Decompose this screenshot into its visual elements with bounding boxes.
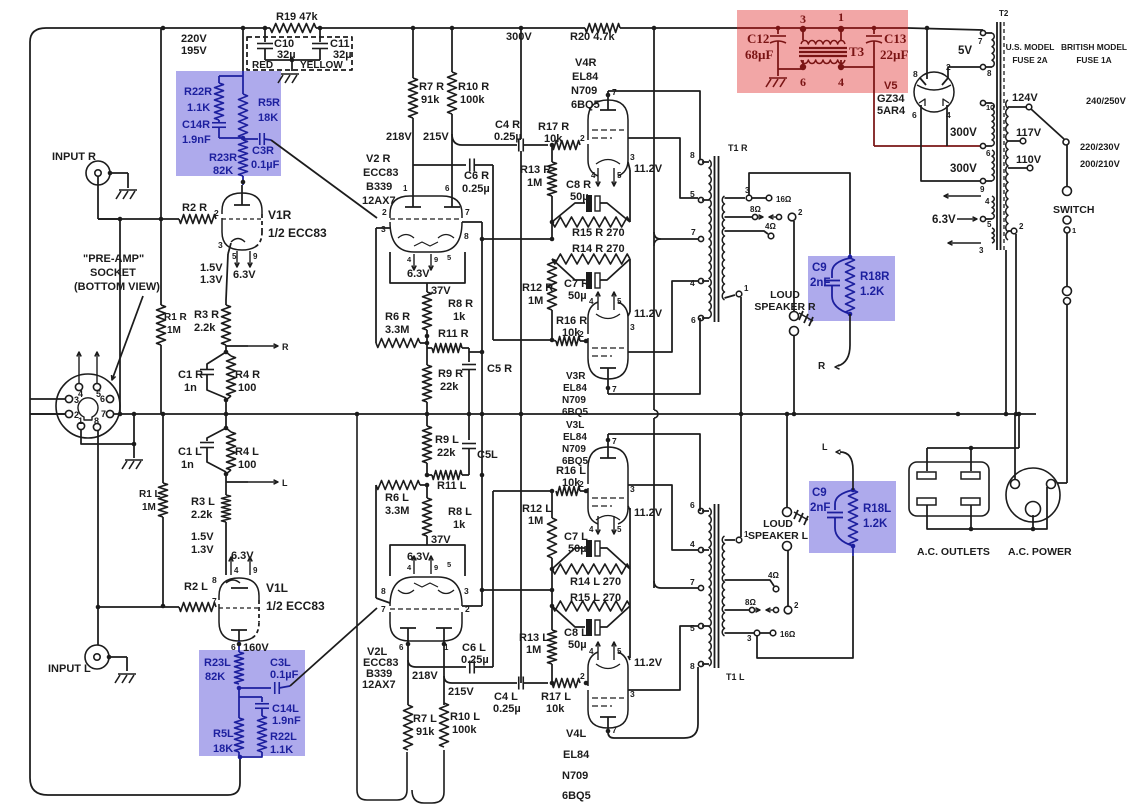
- svg-text:1/2 ECC83: 1/2 ECC83: [266, 599, 325, 613]
- svg-text:7: 7: [465, 207, 470, 217]
- T1L feedback wire: [757, 556, 853, 658]
- svg-text:C13: C13: [884, 31, 907, 46]
- svg-text:1.1K: 1.1K: [187, 102, 210, 114]
- T2 primary coil: [1006, 100, 1008, 240]
- wire V2L plate2 215V: [442, 641, 517, 705]
- svg-text:1: 1: [403, 184, 408, 193]
- svg-text:6.3V: 6.3V: [407, 551, 430, 563]
- wire C3R to V2R grid: [271, 140, 377, 218]
- svg-text:U.S. MODEL: U.S. MODEL: [1006, 42, 1055, 52]
- node R2R junction: [159, 217, 164, 222]
- svg-text:9: 9: [253, 566, 258, 575]
- wire R23R to V1R plate: [241, 176, 246, 185]
- tube V4L: [588, 652, 628, 728]
- svg-text:6BQ5: 6BQ5: [562, 407, 589, 418]
- svg-text:V3L: V3L: [566, 420, 584, 431]
- svg-text:215V: 215V: [423, 131, 449, 143]
- svg-text:22k: 22k: [437, 447, 456, 459]
- label C3R 0.1uF: [251, 145, 280, 171]
- svg-text:4: 4: [985, 197, 990, 206]
- speaker R terminals: [790, 312, 799, 336]
- wire GZ34 pin4 to red line: [946, 105, 948, 146]
- wire C6R to R16R: [474, 165, 552, 340]
- svg-text:12AX7: 12AX7: [362, 195, 396, 207]
- svg-text:4: 4: [838, 75, 844, 89]
- label C4R 0.25u: [494, 119, 522, 143]
- wire top bus inside pink box: [737, 27, 908, 29]
- label C8R 50u: [566, 179, 591, 203]
- svg-text:2: 2: [580, 133, 585, 143]
- wire V1R cathode pin3: [218, 240, 231, 300]
- svg-text:5: 5: [987, 220, 992, 229]
- wire socket pins to left border: [30, 399, 65, 414]
- label 11.2V V3R: [634, 308, 663, 320]
- label 6.3V at V1R: [233, 269, 256, 281]
- svg-text:110V: 110V: [1016, 154, 1042, 166]
- label R4L 100: [235, 446, 259, 471]
- resistor R23L: [235, 652, 244, 684]
- svg-text:7: 7: [612, 384, 617, 394]
- svg-text:6: 6: [800, 75, 806, 89]
- svg-text:EL84: EL84: [563, 749, 590, 761]
- wire R6L to V2L grid: [376, 485, 390, 603]
- svg-text:6: 6: [231, 642, 236, 652]
- svg-text:R20 4.7k: R20 4.7k: [570, 31, 616, 43]
- svg-text:22µF: 22µF: [880, 47, 908, 62]
- svg-text:3: 3: [381, 224, 386, 234]
- label R16L 10k: [556, 465, 586, 489]
- resistor R13R: [548, 145, 557, 196]
- label pin2 V3R: [579, 329, 584, 339]
- svg-text:FUSE 1A: FUSE 1A: [1076, 55, 1111, 65]
- highlight box around C12/T3/C13 filter (pink): [737, 10, 908, 93]
- label 1.5V 1.3V at V1L: [191, 531, 214, 556]
- label C12 68uF: [745, 31, 773, 62]
- label R7R 91k: [419, 81, 444, 106]
- svg-text:18K: 18K: [258, 112, 278, 124]
- svg-text:117V: 117V: [1016, 127, 1042, 139]
- svg-text:50µ: 50µ: [568, 543, 587, 555]
- resistor R4L: [226, 428, 236, 474]
- svg-text:SOCKET: SOCKET: [90, 267, 136, 279]
- svg-text:11.2V: 11.2V: [634, 163, 663, 175]
- svg-text:3: 3: [747, 634, 752, 643]
- svg-text:22k: 22k: [440, 381, 459, 393]
- label C10 32u: [274, 38, 296, 61]
- svg-text:3: 3: [630, 484, 635, 494]
- wire V4R screen to tap5: [628, 138, 698, 198]
- svg-text:4: 4: [78, 389, 83, 399]
- svg-text:R13 L: R13 L: [519, 632, 549, 644]
- switch lower circles: [1063, 287, 1072, 305]
- svg-text:R15 R 270: R15 R 270: [572, 227, 625, 239]
- wire switch to AC power: [1057, 305, 1067, 483]
- resistor R18R: [846, 254, 855, 316]
- T2 300V winding lower: [980, 150, 994, 194]
- svg-text:5AR4: 5AR4: [877, 105, 906, 117]
- label R5R 18K: [258, 97, 280, 124]
- tube V4R: [588, 100, 628, 176]
- svg-text:R3 R: R3 R: [194, 309, 219, 321]
- svg-text:R14 R 270: R14 R 270: [572, 243, 625, 255]
- svg-text:100k: 100k: [460, 94, 485, 106]
- svg-text:5: 5: [617, 647, 622, 656]
- svg-text:7: 7: [612, 87, 617, 97]
- resistor R17R: [550, 141, 580, 150]
- outlet slots: [917, 472, 980, 505]
- svg-text:EL84: EL84: [572, 71, 599, 83]
- wire tap1 to bus: [740, 297, 742, 414]
- svg-text:N709: N709: [571, 85, 597, 97]
- svg-text:160V: 160V: [243, 642, 269, 654]
- svg-text:V5: V5: [884, 80, 897, 92]
- T1L sec tap 16ohm: [725, 630, 796, 643]
- label U.S. MODEL FUSE 2A: [1006, 42, 1055, 65]
- capacitor C1R: [200, 352, 226, 398]
- svg-text:4: 4: [589, 647, 594, 656]
- svg-text:R16 R: R16 R: [556, 315, 587, 327]
- resistor R11L: [425, 463, 469, 480]
- label R8L 1k: [448, 506, 472, 531]
- svg-text:R8 R: R8 R: [448, 298, 473, 310]
- svg-text:6: 6: [690, 500, 695, 510]
- svg-text:R7 L: R7 L: [413, 713, 437, 725]
- label T3 pin 6 and 4: [800, 75, 844, 89]
- label C6R 0.25u: [462, 170, 490, 195]
- label R12R 1M: [522, 282, 553, 307]
- wire V4R cathode node: [628, 162, 630, 222]
- svg-text:BRITISH MODEL: BRITISH MODEL: [1061, 42, 1127, 52]
- capacitor C8L electrolytic: [552, 606, 630, 636]
- wire V2R pin7 grid2 line: [462, 222, 484, 414]
- svg-text:82K: 82K: [213, 165, 233, 177]
- svg-text:8: 8: [987, 69, 992, 78]
- wire outlets bottom loop: [927, 487, 1047, 531]
- heater arrows V3L: [589, 516, 622, 534]
- label 6.3V V2R: [407, 268, 430, 280]
- label R20 4.7k: [570, 31, 616, 43]
- label V3L EL84 N709 6BQ5: [562, 420, 589, 467]
- label R9L 22k: [435, 434, 459, 459]
- svg-text:T1 R: T1 R: [728, 143, 748, 153]
- label 220V 195V: [181, 33, 207, 57]
- svg-text:6: 6: [445, 184, 450, 193]
- svg-text:RED: RED: [252, 60, 273, 71]
- svg-text:3: 3: [630, 152, 635, 162]
- svg-text:GZ34: GZ34: [877, 93, 905, 105]
- svg-text:5: 5: [232, 252, 237, 261]
- highlight box around C9/R18L network: [809, 481, 896, 553]
- node dots on top bus: [161, 26, 930, 31]
- wire T1L tap1 to bus: [740, 414, 742, 537]
- label C6L 0.25u: [461, 642, 489, 666]
- resistor R12L: [548, 489, 557, 590]
- svg-text:8: 8: [94, 416, 99, 426]
- svg-text:0.25µ: 0.25µ: [494, 131, 522, 143]
- selector contact 220/230: [1063, 139, 1069, 145]
- label pins V1L: [212, 575, 236, 652]
- label V3R EL84 N709 6BQ5: [562, 371, 589, 418]
- svg-text:10k: 10k: [546, 703, 565, 715]
- arrow R output: [226, 342, 289, 352]
- svg-text:3: 3: [630, 322, 635, 332]
- resistor R14L: [552, 564, 630, 574]
- wire input R down: [98, 176, 120, 219]
- label R17L 10k: [541, 691, 571, 715]
- label 6.3V at V1L: [231, 550, 254, 562]
- label R1L 1M: [139, 489, 161, 513]
- svg-text:EL84: EL84: [563, 383, 587, 394]
- pointer line to socket: [112, 296, 144, 380]
- tube V2R: [390, 196, 462, 252]
- label 11.2V V4L: [634, 657, 663, 669]
- label R10L 100k: [450, 711, 480, 736]
- svg-text:C14R: C14R: [182, 119, 210, 131]
- svg-text:B339: B339: [366, 181, 392, 193]
- svg-text:C1 R: C1 R: [178, 369, 203, 381]
- svg-text:10: 10: [986, 103, 994, 112]
- resistor R2R: [179, 215, 216, 224]
- T1R sec tap 4ohm: [725, 222, 777, 239]
- svg-text:195V: 195V: [181, 45, 207, 57]
- svg-text:2: 2: [580, 671, 585, 681]
- resistor R22L: [258, 716, 267, 752]
- svg-text:ECC83: ECC83: [363, 167, 398, 179]
- ground below RED/YELLOW box: [278, 74, 299, 83]
- svg-text:5: 5: [447, 253, 451, 262]
- svg-text:11.2V: 11.2V: [634, 657, 663, 669]
- svg-text:300V: 300V: [506, 31, 532, 43]
- T1L sec tap 1: [725, 530, 750, 543]
- capacitor C8R electrolytic: [552, 195, 630, 222]
- label pin7 V3L: [612, 436, 617, 446]
- T2 300V winding upper: [980, 100, 994, 158]
- T2 5V winding: [978, 30, 994, 78]
- label R3L 2.2k: [191, 496, 215, 521]
- svg-text:5V: 5V: [958, 45, 972, 57]
- label 218V L: [412, 670, 438, 682]
- svg-text:C9: C9: [812, 487, 827, 499]
- svg-text:6: 6: [399, 643, 404, 652]
- svg-text:1.2K: 1.2K: [860, 286, 885, 298]
- svg-text:7: 7: [101, 409, 106, 419]
- svg-text:1M: 1M: [528, 295, 543, 307]
- label 5V: [958, 45, 972, 57]
- label pin2 V4R: [580, 133, 585, 143]
- resistor R9R: [423, 365, 432, 414]
- svg-text:3.3M: 3.3M: [385, 324, 409, 336]
- svg-text:R10 L: R10 L: [450, 711, 480, 723]
- svg-text:T3: T3: [849, 44, 865, 59]
- node R23L junction: [237, 686, 242, 691]
- svg-text:8Ω: 8Ω: [745, 598, 756, 607]
- label R17R 10k: [538, 121, 569, 145]
- capacitor C10: [257, 28, 273, 60]
- svg-text:V4L: V4L: [566, 728, 586, 740]
- wire jack R to ground: [108, 171, 128, 188]
- heater arrows V2R: [407, 253, 451, 270]
- node dots on center bus: [161, 412, 1022, 417]
- capacitor C13: [866, 26, 882, 43]
- wire GZ34 pin8 to bus: [926, 28, 928, 79]
- label V5 GZ34 5AR4: [877, 80, 906, 117]
- label INPUT L: [48, 663, 91, 675]
- svg-text:5: 5: [690, 189, 695, 199]
- wire V4L cathode node: [628, 656, 630, 660]
- svg-text:T2: T2: [999, 9, 1009, 18]
- svg-text:3: 3: [979, 246, 984, 255]
- label C7R 50u: [564, 278, 589, 302]
- svg-text:68µF: 68µF: [745, 47, 773, 62]
- svg-text:9: 9: [980, 185, 985, 194]
- svg-text:10k: 10k: [544, 133, 563, 145]
- tube V1L: [219, 578, 259, 641]
- svg-text:220/230V: 220/230V: [1080, 142, 1121, 152]
- label V2R ECC83 B339 12AX7: [362, 153, 398, 207]
- heater pins V1R: [232, 251, 258, 267]
- wire V4L plate to tap8: [606, 667, 698, 738]
- capacitor C7R electrolytic: [552, 259, 630, 289]
- T1L sec tap 8ohm: [725, 598, 800, 614]
- svg-text:8: 8: [381, 586, 386, 596]
- wire outlets top feed: [927, 414, 1019, 471]
- resistor R3R: [222, 305, 231, 345]
- label C5R: [487, 363, 512, 375]
- wire grid R line: [98, 218, 179, 220]
- input jack L: [85, 645, 109, 669]
- label LOUD SPEAKER L: [748, 518, 809, 542]
- label 240/250V: [1086, 96, 1127, 106]
- label R13L 1M: [519, 632, 549, 656]
- label 1.5V 1.3V at V1R: [200, 262, 223, 286]
- transformer T1L secondary coil: [722, 536, 724, 636]
- T1L primary taps: [690, 500, 709, 671]
- svg-text:R: R: [282, 342, 289, 352]
- label R15L 270: [570, 592, 621, 604]
- tube V1R: [222, 185, 262, 250]
- svg-text:1n: 1n: [184, 382, 197, 394]
- wire R1R to bus: [160, 345, 162, 414]
- transformer T1L primary coil: [709, 508, 711, 666]
- wire C3L to V2L grid: [290, 608, 377, 686]
- label 300V upper: [950, 127, 977, 139]
- label C14L 1.9nF: [272, 703, 301, 727]
- resistor R19: [270, 24, 316, 33]
- svg-text:INPUT L: INPUT L: [48, 663, 91, 675]
- svg-text:4: 4: [690, 278, 695, 288]
- label C1L 1n: [178, 446, 202, 471]
- resistor R15R: [552, 217, 630, 227]
- label R11L: [437, 480, 467, 492]
- svg-text:R4 R: R4 R: [235, 369, 260, 381]
- svg-text:C12: C12: [747, 31, 769, 46]
- svg-text:R15 L 270: R15 L 270: [570, 592, 621, 604]
- tube V3L: [588, 447, 628, 524]
- svg-text:R: R: [818, 361, 826, 372]
- GZ34 anode arc: [917, 85, 951, 90]
- svg-text:2nF: 2nF: [810, 502, 830, 514]
- svg-text:8: 8: [690, 661, 695, 671]
- label 218V: [386, 131, 412, 143]
- svg-text:YELLOW: YELLOW: [300, 60, 343, 71]
- svg-text:3: 3: [630, 689, 635, 699]
- svg-text:215V: 215V: [448, 686, 474, 698]
- svg-text:200/210V: 200/210V: [1080, 159, 1121, 169]
- wire left border: [30, 42, 240, 795]
- label V1L 1/2 ECC83: [266, 581, 325, 613]
- heater box V2L: [390, 536, 465, 576]
- label RED YELLOW: [252, 60, 343, 71]
- T2 primary tap 110V: [1008, 154, 1042, 171]
- resistor R16R: [552, 337, 588, 346]
- svg-text:1.5V: 1.5V: [191, 531, 214, 543]
- ground at speaker L: [794, 510, 808, 525]
- svg-text:7: 7: [691, 227, 696, 237]
- wire GZ34 pin2 to 5V tap: [948, 67, 980, 78]
- svg-text:R10 R: R10 R: [458, 81, 489, 93]
- svg-text:3.3M: 3.3M: [385, 505, 409, 517]
- label R14R 270: [572, 243, 625, 255]
- svg-text:R13 R: R13 R: [520, 164, 551, 176]
- svg-text:6: 6: [912, 110, 917, 120]
- svg-text:L: L: [282, 478, 288, 488]
- svg-text:4: 4: [690, 539, 695, 549]
- highlight box around C9/R18R network: [808, 256, 895, 321]
- label "PRE-AMP" SOCKET (BOTTOM VIEW): [74, 253, 160, 293]
- feedback arrow R: [818, 314, 850, 372]
- svg-text:18K: 18K: [213, 743, 233, 755]
- label R3R 2.2k: [194, 309, 219, 334]
- label INPUT R: [52, 151, 96, 163]
- svg-text:R23R: R23R: [209, 152, 237, 164]
- svg-text:0.1µF: 0.1µF: [270, 669, 299, 681]
- capacitor C3R: [243, 133, 271, 145]
- label V4R EL84 N709 6BQ5: [571, 57, 600, 111]
- wire V2L pin2 grid2 line: [462, 414, 484, 606]
- svg-text:6: 6: [691, 315, 696, 325]
- svg-text:220V: 220V: [181, 33, 207, 45]
- capacitor C5L: [462, 414, 476, 475]
- capacitor C9 (L): [827, 490, 853, 546]
- resistor R6R: [376, 339, 427, 348]
- label V2L ECC83 B339 12AX7: [362, 646, 398, 691]
- svg-text:11.2V: 11.2V: [634, 308, 663, 320]
- transformer T1R secondary coil: [722, 196, 724, 300]
- wire V4L grid: [584, 681, 589, 686]
- A.C. power connector: [1006, 468, 1060, 522]
- svg-text:4: 4: [591, 171, 596, 180]
- svg-text:R4 L: R4 L: [235, 446, 259, 458]
- transformer T3 top winding: [801, 40, 845, 44]
- label C9 2nF (L): [810, 487, 830, 514]
- resistor R13L: [548, 590, 557, 683]
- resistor R22R: [215, 83, 224, 120]
- svg-text:1: 1: [1072, 226, 1076, 235]
- svg-text:124V: 124V: [1012, 92, 1038, 104]
- label C9 2nF (R): [810, 262, 830, 289]
- svg-text:V1L: V1L: [266, 581, 288, 595]
- T1R primary taps: [690, 150, 709, 325]
- label V1R 1/2 ECC83: [268, 208, 327, 240]
- heater arrows V4R: [591, 168, 622, 186]
- label C5L: [477, 449, 498, 461]
- tube V5 GZ34: [914, 72, 954, 112]
- svg-text:1: 1: [838, 10, 844, 24]
- input jack R: [86, 161, 110, 185]
- label R12L 1M: [522, 503, 552, 527]
- label R11R: [438, 328, 469, 340]
- label 37V R: [431, 285, 451, 297]
